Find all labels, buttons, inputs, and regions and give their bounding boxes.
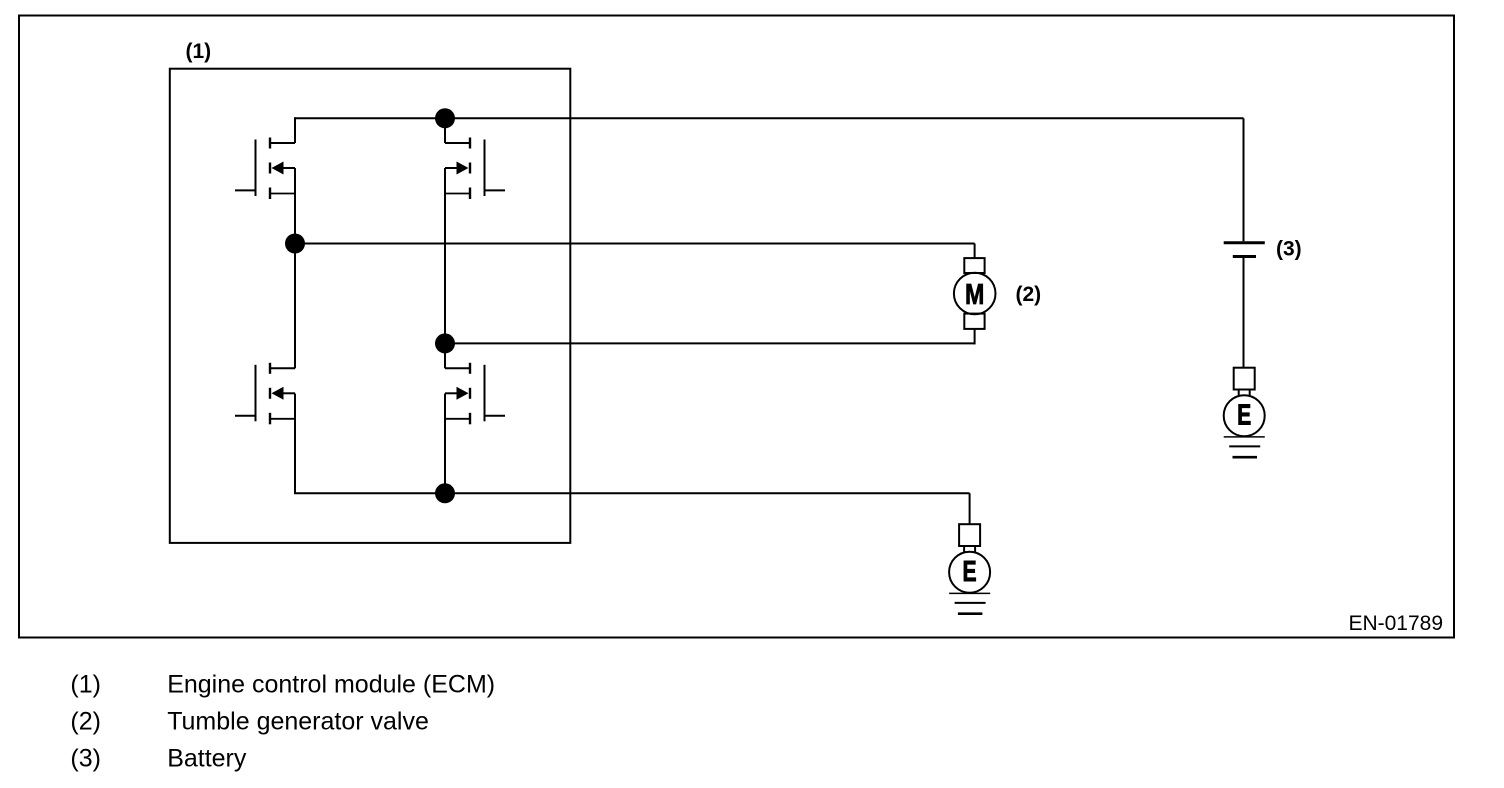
wire: battery drop from top rail bbox=[1243, 118, 1245, 241]
transistor Q2 (top-right MOSFET) bbox=[445, 138, 505, 200]
wire: middle rail to motor top bbox=[294, 243, 975, 245]
svg-text:M: M bbox=[965, 277, 984, 310]
wire: top rail to battery bbox=[294, 117, 1244, 119]
node: mid-right junction bbox=[435, 333, 455, 353]
wire: bottom rail down to earth E2 bbox=[969, 493, 971, 524]
wire: battery to earth E1 bbox=[1243, 258, 1245, 368]
svg-text:Tumble generator valve: Tumble generator valve bbox=[167, 707, 429, 735]
battery BAT plate long bbox=[1224, 241, 1265, 244]
transistor Q1 (top-left MOSFET) bbox=[235, 138, 295, 200]
motor M terminal bottom bbox=[964, 314, 984, 329]
svg-text:(2): (2) bbox=[1016, 283, 1042, 306]
node: left junction bbox=[285, 234, 305, 254]
node: bottom junction bbox=[435, 483, 455, 503]
wire: left node down to Q3 drain bbox=[294, 244, 296, 369]
wire: mid-right node down to Q4 drain bbox=[444, 343, 446, 368]
wire: motor top lead bbox=[974, 244, 976, 259]
svg-text:(1): (1) bbox=[186, 40, 212, 63]
wire: Q2 drain to top rail bbox=[444, 117, 446, 143]
svg-text:Battery: Battery bbox=[167, 745, 247, 773]
wire: Q3 source down to bottom rail corner bbox=[294, 394, 296, 494]
svg-text:(3): (3) bbox=[70, 745, 101, 773]
wire: motor bottom rail bbox=[445, 342, 975, 344]
svg-text:EN-01789: EN-01789 bbox=[1348, 612, 1443, 635]
wire: motor bottom lead bbox=[974, 329, 976, 345]
transistor Q4 (bottom-right MOSFET) bbox=[445, 363, 505, 425]
node: top junction bbox=[435, 108, 455, 128]
ground earth E1 bbox=[1224, 368, 1265, 458]
wire: Q1 drain to top rail bbox=[294, 117, 296, 143]
wire: Q4 source down to bottom node bbox=[444, 394, 446, 494]
transistor Q3 (bottom-left MOSFET) bbox=[235, 363, 295, 425]
svg-text:(3): (3) bbox=[1276, 237, 1302, 260]
outer border frame bbox=[19, 16, 1454, 638]
svg-text:(1): (1) bbox=[70, 670, 101, 698]
ground earth E2 bbox=[949, 524, 990, 614]
svg-text:(2): (2) bbox=[70, 707, 101, 735]
ECM box U1 bbox=[170, 69, 571, 543]
wire: Q2 source down to mid-right node bbox=[444, 168, 446, 343]
battery BAT plate short bbox=[1233, 255, 1256, 258]
motor M terminal top bbox=[964, 258, 984, 273]
wire: Q1 source down to left node bbox=[294, 168, 296, 244]
wire: bottom rail to earth bbox=[294, 492, 970, 494]
motor M body bbox=[954, 273, 996, 315]
svg-text:Engine control module (ECM): Engine control module (ECM) bbox=[167, 670, 495, 698]
